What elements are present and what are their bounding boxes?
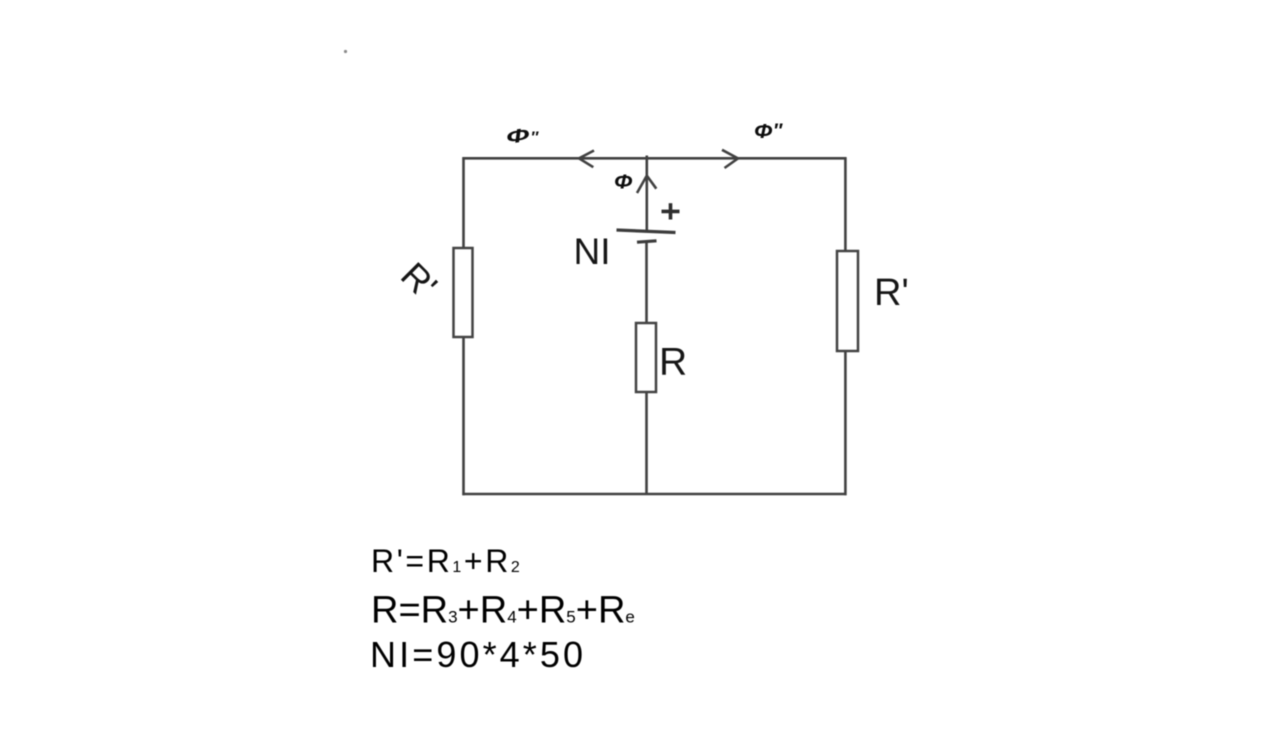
svg-text:″: ″ bbox=[531, 130, 540, 147]
wire center upper segment bbox=[645, 156, 648, 231]
resistor R' left bbox=[454, 248, 473, 337]
mmf source NI battery short plate bbox=[637, 241, 657, 242]
wire bottom bbox=[462, 493, 846, 496]
svg-text:R': R' bbox=[874, 272, 909, 314]
svg-text:Φ: Φ bbox=[754, 121, 773, 143]
wire left bbox=[462, 157, 465, 495]
svg-text:R: R bbox=[659, 341, 687, 384]
polarity plus sign bbox=[662, 203, 680, 219]
svg-text:Φ: Φ bbox=[504, 124, 531, 148]
resistor R center bbox=[636, 323, 656, 392]
wire right bbox=[844, 157, 847, 495]
svg-text:″: ″ bbox=[773, 121, 783, 142]
svg-text:R'=R1+R2: R'=R1+R2 bbox=[371, 543, 522, 579]
flux arrow head, top-right (pointing right) bbox=[722, 150, 738, 168]
flux arrow head, top-left (pointing left) bbox=[579, 151, 594, 168]
mmf source NI battery long plate bbox=[617, 230, 676, 233]
svg-text:Φ: Φ bbox=[614, 172, 633, 194]
resistor R' right bbox=[837, 251, 858, 351]
wire top bbox=[462, 157, 846, 160]
wire center lower segment bbox=[645, 243, 648, 495]
svg-text:NI: NI bbox=[574, 231, 611, 272]
svg-text:R': R' bbox=[393, 254, 445, 306]
svg-text:R=R3+R4+R5+Re: R=R3+R4+R5+Re bbox=[371, 590, 635, 632]
svg-text:NI=90*4*50: NI=90*4*50 bbox=[370, 634, 586, 675]
flux arrow head, center (pointing up) bbox=[637, 176, 656, 193]
